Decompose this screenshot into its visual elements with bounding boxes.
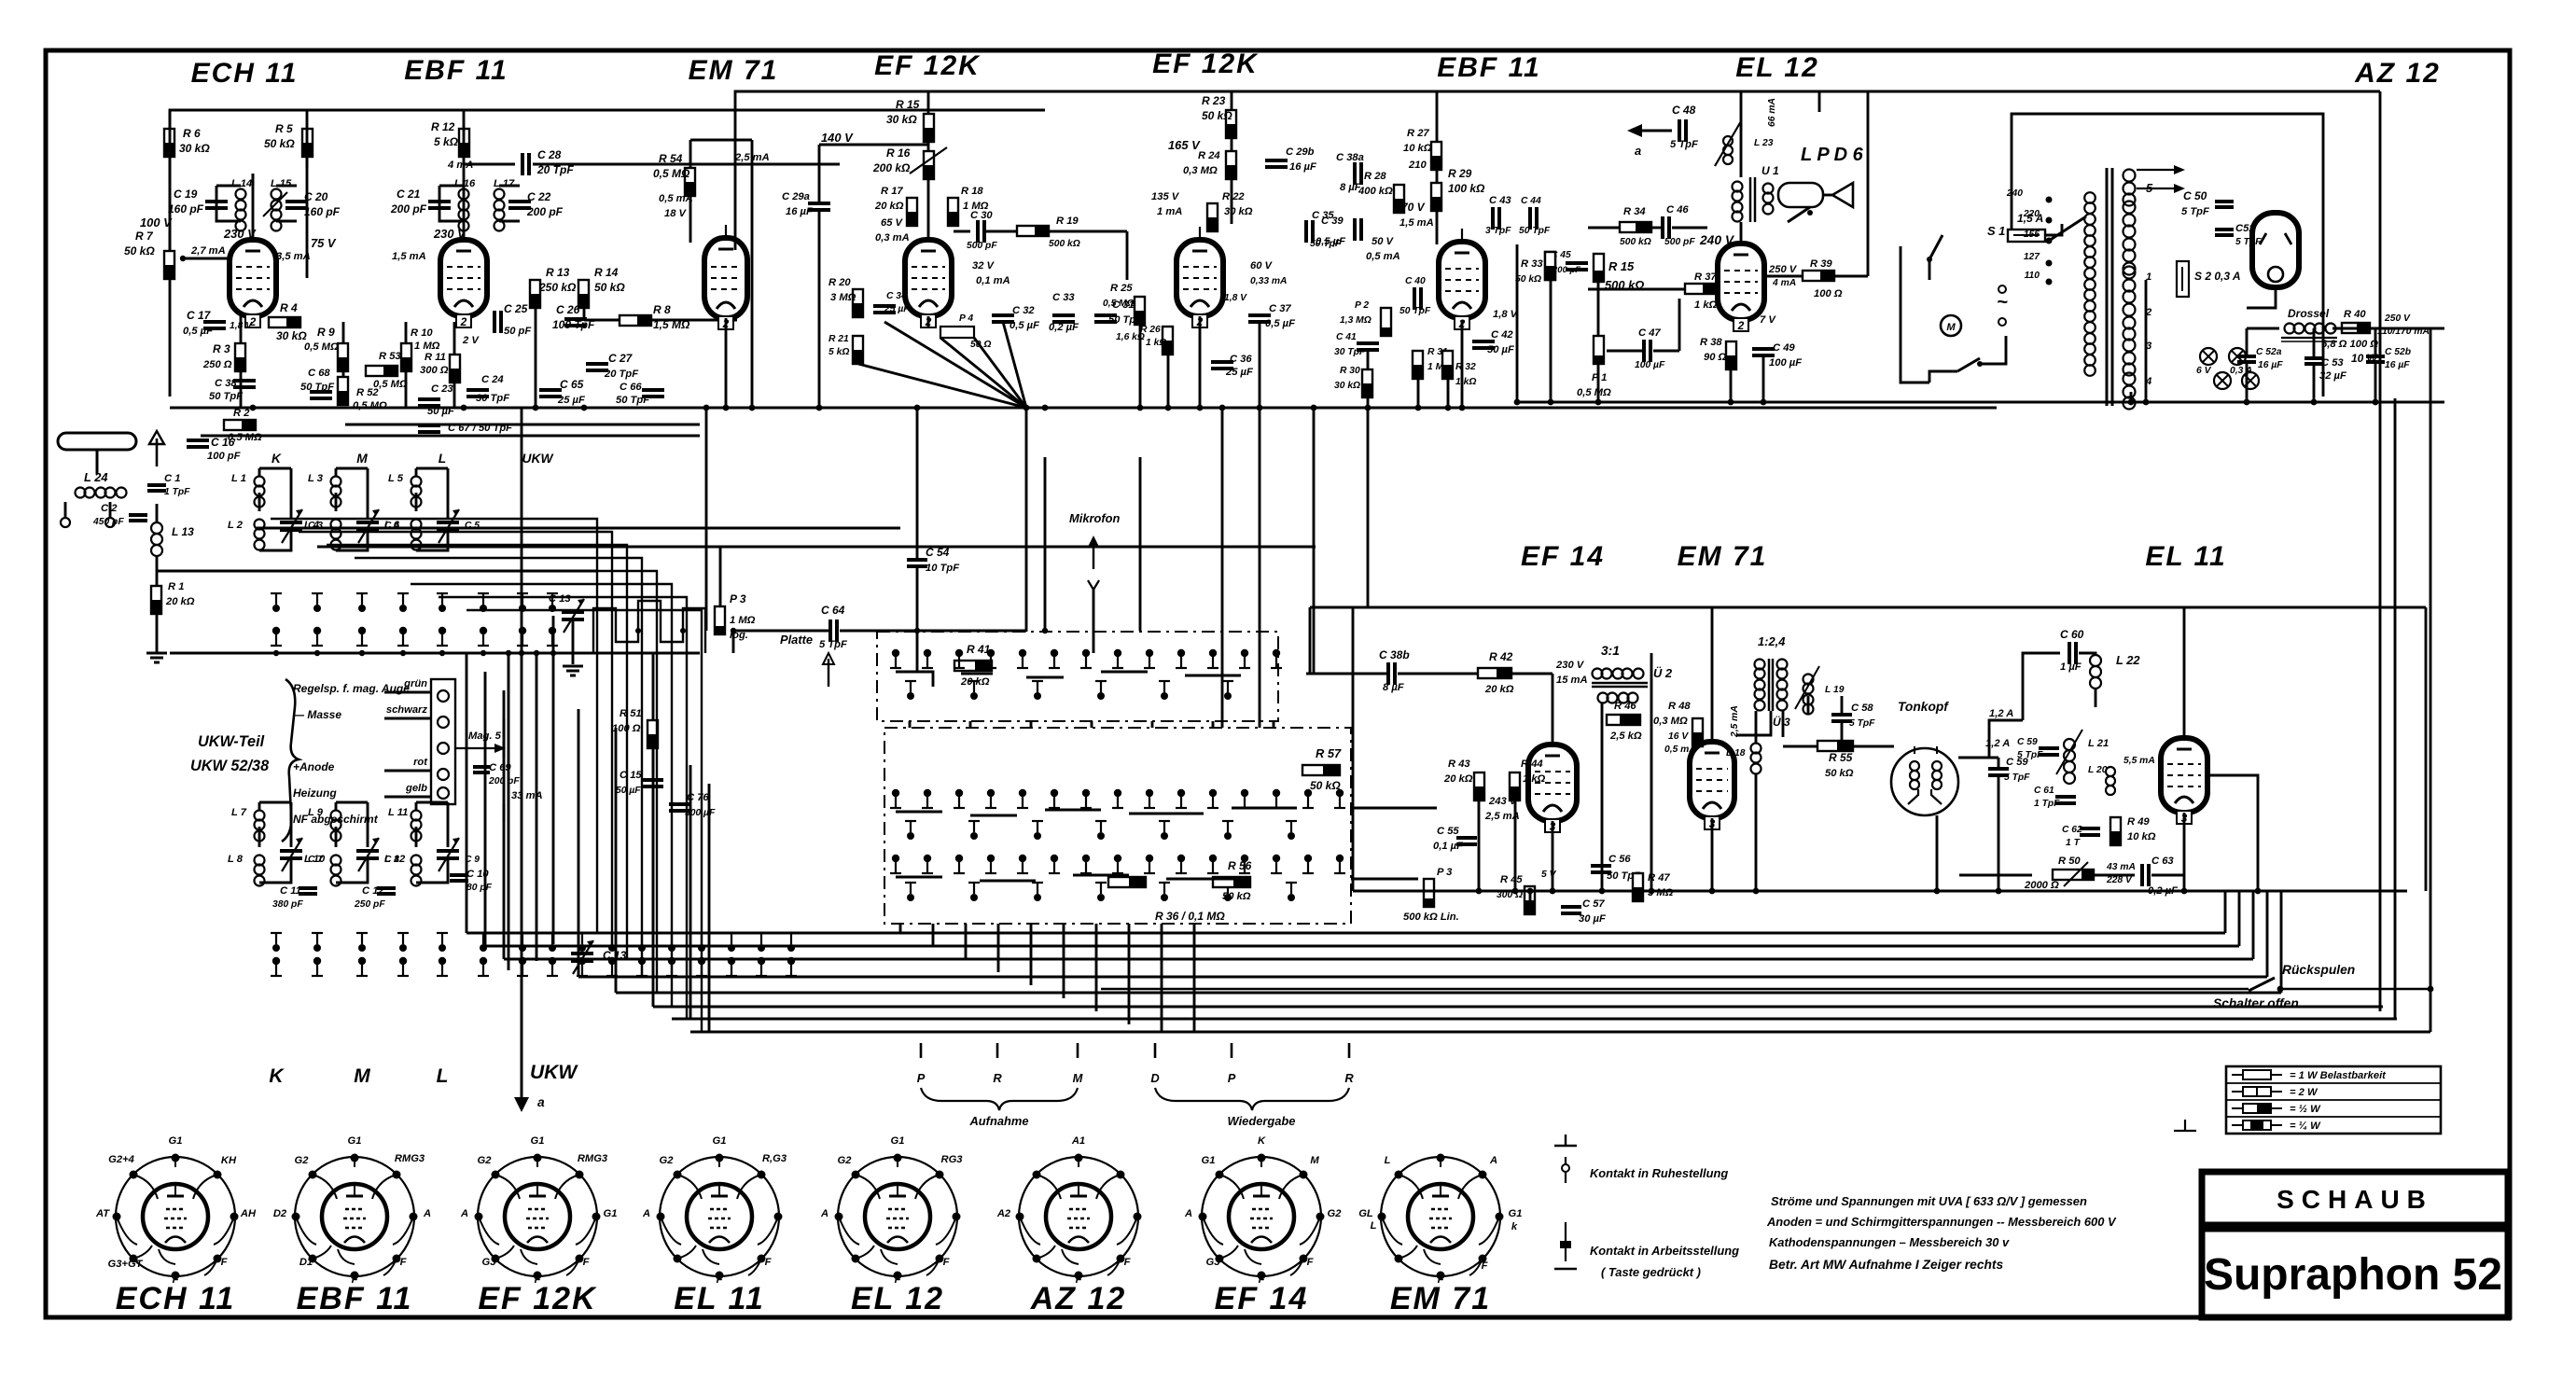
svg-text:C 60: C 60 (2060, 628, 2084, 641)
capacitor C37 (1248, 313, 1271, 317)
wires lower band 1 (259, 801, 291, 804)
wire power box (1901, 246, 1929, 383)
svg-text:R: R (993, 1071, 1002, 1085)
capacitor C22 (508, 200, 531, 203)
svg-text:AH: AH (240, 1208, 257, 1219)
svg-text:65 V: 65 V (881, 217, 904, 229)
resistor R1 (151, 586, 161, 614)
svg-text:R 52: R 52 (356, 387, 379, 398)
svg-text:L 12: L 12 (384, 854, 406, 865)
svg-text:C 16: C 16 (211, 436, 235, 449)
wires AZ12 (2247, 287, 2276, 308)
svg-text:1 TpF: 1 TpF (2034, 799, 2060, 809)
svg-text:M: M (1946, 322, 1956, 333)
capacitor C24 (466, 388, 489, 392)
resistor R40 (2342, 323, 2370, 333)
svg-text:D: D (1150, 1071, 1159, 1085)
svg-text:0,5 MΩ: 0,5 MΩ (653, 167, 690, 180)
svg-text:50 kΩ: 50 kΩ (1515, 274, 1541, 285)
svg-text:228 V: 228 V (2106, 875, 2133, 885)
svg-text:C 1: C 1 (164, 473, 180, 484)
svg-text:C 29b: C 29b (1286, 146, 1315, 158)
wire antenna down (156, 504, 159, 522)
svg-text:RG3: RG3 (940, 1154, 963, 1165)
capacitor C38b (1386, 662, 1390, 685)
bus EL12 bottom (1517, 401, 1997, 404)
svg-text:A: A (423, 1208, 431, 1219)
title block lower (2202, 1229, 2508, 1317)
svg-text:C 41: C 41 (1336, 332, 1357, 342)
svg-text:16 µF: 16 µF (1289, 161, 1317, 173)
wire Platte-P3 link (732, 631, 735, 653)
svg-text:C 25: C 25 (504, 302, 528, 315)
switch bank row 3 contacts (892, 855, 899, 862)
resistor R16 variable (924, 151, 934, 179)
svg-text:F: F (1482, 1260, 1489, 1272)
svg-text:1 kΩ: 1 kΩ (1694, 299, 1718, 311)
svg-text:KH: KH (221, 1155, 237, 1166)
svg-text:A: A (460, 1208, 468, 1219)
svg-text:R 38: R 38 (1700, 337, 1722, 348)
wire EM71 vert right (751, 140, 754, 408)
wire ground bus second line (201, 435, 700, 438)
wire EL11 anode (2183, 607, 2186, 738)
svg-text:R 8: R 8 (653, 303, 671, 316)
svg-text:C 23: C 23 (431, 383, 453, 395)
svg-text:ECH 11: ECH 11 (116, 1281, 236, 1316)
svg-text:L 2: L 2 (228, 520, 244, 531)
resistor R10 (401, 343, 411, 371)
capacitor C31 (1094, 313, 1117, 317)
svg-text:50 kΩ: 50 kΩ (1310, 779, 1341, 792)
svg-text:C 34: C 34 (886, 291, 907, 301)
wire L18 leads (1755, 711, 1758, 743)
svg-text:M: M (1310, 1155, 1319, 1166)
svg-text:0,5 µF: 0,5 µF (1316, 236, 1346, 247)
switch bank row 1b (910, 681, 912, 692)
capacitor C50 (2215, 200, 2234, 203)
svg-text:1,5 mA: 1,5 mA (392, 251, 426, 262)
svg-text:C 56: C 56 (1608, 854, 1631, 865)
capacitor C10 (450, 873, 468, 877)
svg-text:300 Ω: 300 Ω (420, 365, 449, 376)
svg-text:G3: G3 (482, 1257, 497, 1268)
svg-text:5 TpF: 5 TpF (1849, 718, 1875, 729)
svg-text:EL 11: EL 11 (674, 1281, 765, 1316)
capacitor C60 (2068, 642, 2071, 664)
svg-text:Kathodenspannungen – Messber: Kathodenspannungen – Messbereich 30 v (1769, 1235, 2010, 1249)
resistor R17 (907, 198, 917, 226)
capacitor C30 (976, 220, 980, 243)
trim cap upper band 1 (280, 521, 302, 524)
svg-text:R 2: R 2 (233, 408, 250, 419)
transformer core (2106, 168, 2109, 406)
L21 arrow (2056, 730, 2082, 774)
svg-text:C 58: C 58 (1851, 703, 1873, 714)
svg-text:250 Ω: 250 Ω (202, 359, 232, 370)
svg-text:50 TpF: 50 TpF (1519, 226, 1551, 236)
svg-text:R 21: R 21 (828, 334, 849, 344)
svg-text:C 64: C 64 (821, 604, 845, 617)
svg-text:U 1: U 1 (1761, 164, 1779, 177)
svg-text:Platte: Platte (780, 633, 813, 647)
svg-text:10 kΩ: 10 kΩ (2127, 831, 2156, 842)
svg-text:30 TpF: 30 TpF (476, 393, 510, 404)
resistor R8 (620, 315, 651, 326)
wire EM71 bottom (725, 318, 728, 408)
svg-text:K: K (272, 452, 282, 466)
svg-text:500 pF: 500 pF (967, 241, 997, 251)
svg-text:220: 220 (2023, 209, 2040, 219)
svg-text:C 39: C 39 (1321, 216, 1344, 227)
wires lower band 3 (416, 801, 448, 804)
resistor R24 (1226, 151, 1236, 179)
svg-text:140 V: 140 V (821, 131, 854, 145)
svg-text:20 kΩ: 20 kΩ (1443, 773, 1473, 785)
resistor R38 (1726, 341, 1736, 369)
wire choke line (2247, 327, 2279, 330)
svg-text:G1: G1 (531, 1135, 545, 1147)
svg-text:500 kΩ: 500 kΩ (1605, 278, 1644, 292)
resistor R15b 500k (1594, 254, 1604, 282)
motor M (1941, 315, 1961, 336)
svg-text:F: F (1307, 1257, 1315, 1268)
svg-text:A1: A1 (1071, 1135, 1085, 1147)
svg-text:60 V: 60 V (1250, 260, 1274, 271)
svg-text:165 V: 165 V (1168, 138, 1201, 152)
svg-text:10 kΩ: 10 kΩ (1403, 143, 1432, 154)
transformer U3 primary (1755, 660, 1765, 670)
svg-text:Kontakt in Arbeitsstellung: Kontakt in Arbeitsstellung (1590, 1244, 1739, 1258)
svg-text:R 1: R 1 (168, 581, 184, 592)
svg-text:32 V: 32 V (972, 260, 996, 271)
resistor R55 (1817, 741, 1853, 751)
wire EF14 anode (1552, 674, 1554, 745)
svg-text:C 22: C 22 (527, 190, 551, 203)
resistor R15 (924, 114, 934, 142)
svg-text:D2: D2 (273, 1208, 287, 1219)
svg-text:2000 Ω: 2000 Ω (2024, 880, 2059, 891)
svg-text:5 TpF: 5 TpF (2004, 773, 2030, 783)
capacitor C27 (586, 362, 608, 366)
svg-text:R 6: R 6 (183, 127, 201, 140)
svg-text:C 44: C 44 (1521, 196, 1541, 206)
transformer U3 secondary (1777, 660, 1788, 670)
svg-text:5,5 mA: 5,5 mA (2123, 756, 2155, 766)
svg-text:C 36: C 36 (1230, 354, 1252, 365)
svg-text:F: F (943, 1257, 951, 1268)
capacitor C40 (1413, 287, 1416, 310)
svg-text:450 pF: 450 pF (92, 517, 124, 527)
wire R34 line (1588, 227, 1620, 230)
svg-text:R 45: R 45 (1500, 874, 1523, 885)
switch bank row 1 contacts (892, 649, 899, 657)
wire L16 box (439, 186, 464, 221)
wire drop 1408 (1313, 408, 1316, 674)
wire connector drop (503, 718, 506, 758)
wires upper band 1 (259, 467, 291, 470)
tap dots (2046, 197, 2053, 203)
svg-text:33 mA: 33 mA (511, 790, 543, 801)
wire EF12K1 anode (927, 316, 930, 328)
wires upper band 2 (336, 467, 368, 470)
junction dots main buses (250, 405, 257, 411)
wires EL12 bottom (1730, 369, 1733, 402)
wire R23 chain (1231, 91, 1233, 110)
coil L17 (494, 189, 505, 200)
capacitor C38a (1353, 162, 1357, 185)
svg-text:6 V: 6 V (2196, 366, 2212, 376)
svg-text:R 57: R 57 (1316, 746, 1342, 760)
wire main ground bus upper section (170, 407, 1997, 410)
switch mains (1929, 235, 1942, 259)
svg-text:M: M (356, 452, 368, 466)
wire mid horizontals left (257, 527, 900, 530)
coil L21 (2064, 739, 2075, 750)
svg-text:5 TpF: 5 TpF (2235, 237, 2262, 247)
svg-text:15 mA: 15 mA (1556, 675, 1588, 686)
svg-text:L 19: L 19 (1825, 685, 1845, 695)
wire C60 left link (1989, 720, 2023, 758)
svg-text:EF 12K: EF 12K (478, 1281, 597, 1316)
svg-text:R 30: R 30 (1340, 366, 1360, 376)
wires EF12K2 bottom (1139, 325, 1142, 408)
transformer U2 core (1592, 682, 1648, 685)
svg-text:8 µF: 8 µF (1383, 682, 1405, 693)
wires EBF11-2 (1367, 350, 1370, 369)
svg-text:0,5 mA: 0,5 mA (1664, 745, 1696, 755)
svg-text:R 18: R 18 (961, 186, 983, 197)
svg-text:R 4: R 4 (280, 301, 298, 314)
capacitor C46 (1661, 216, 1664, 239)
tube EBF11 second (1439, 242, 1485, 318)
coil pair upper band 3 (411, 477, 422, 487)
svg-text:30 kΩ: 30 kΩ (1224, 206, 1253, 217)
svg-text:A: A (820, 1208, 828, 1219)
section top rail (1310, 606, 2426, 609)
svg-text:25 µF: 25 µF (884, 304, 910, 314)
wires upper band 3 (416, 467, 448, 470)
wire right top trunk (2116, 90, 2380, 93)
svg-text:50 V: 50 V (1372, 236, 1395, 247)
resistor R25 (1135, 297, 1145, 325)
svg-text:C 50: C 50 (2183, 189, 2207, 202)
capacitor C19 (205, 200, 228, 203)
svg-text:2 V: 2 V (462, 335, 480, 346)
coil pair lower band 2 (331, 811, 341, 821)
resistor R54 (685, 168, 695, 196)
tube EM71 top (704, 238, 747, 318)
svg-text:C 59: C 59 (2017, 737, 2038, 747)
wire rueckspulen line (1101, 988, 2249, 990)
resistor R49 (2110, 817, 2121, 845)
tuner switch contacts row1 (275, 593, 277, 605)
wire U3 bottom link (1737, 711, 1771, 735)
svg-text:A2: A2 (996, 1208, 1011, 1219)
coil L14 (236, 189, 246, 200)
svg-text:240: 240 (2006, 188, 2023, 199)
capacitor C66 (642, 388, 664, 392)
svg-text:250 V: 250 V (1768, 264, 1798, 275)
wire EL12 anode (1740, 227, 1743, 244)
svg-text:230 V: 230 V (223, 227, 257, 241)
svg-text:6,8 Ω 100 Ω: 6,8 Ω 100 Ω (2321, 339, 2378, 350)
svg-text:C 52b: C 52b (2385, 347, 2411, 357)
L23 arrow (1715, 121, 1741, 166)
svg-text:100 V: 100 V (140, 216, 173, 230)
capacitor C21 (428, 200, 451, 203)
resistor R50 pot (2053, 870, 2094, 880)
resistor R57 (1302, 765, 1340, 775)
resistor R22 (1207, 203, 1218, 231)
wire R37 (1588, 288, 1685, 291)
UKW brace (282, 679, 299, 842)
svg-text:4 mA: 4 mA (1772, 278, 1796, 288)
wire Tonkopf down (1936, 815, 1939, 891)
antenna symbol (58, 433, 136, 450)
wire mains switch (1929, 259, 1931, 280)
wire EL12 anode side (1764, 275, 1803, 278)
capacitor C58 (1831, 713, 1852, 717)
svg-text:~: ~ (1997, 292, 2008, 313)
svg-text:7 V: 7 V (1760, 314, 1776, 326)
capacitor C39 (1353, 218, 1357, 241)
transformer U1 secondary (1763, 184, 1774, 194)
tube AZ12 (2252, 213, 2299, 287)
svg-text:380 pF: 380 pF (272, 899, 303, 910)
svg-text:L 15: L 15 (271, 178, 292, 189)
resistor R56 (1213, 877, 1250, 887)
svg-text:G1: G1 (169, 1135, 183, 1147)
antenna arrow (156, 438, 159, 466)
capacitor C25 (493, 311, 496, 333)
svg-text:G1: G1 (604, 1208, 618, 1219)
svg-text:P 3: P 3 (1437, 867, 1453, 878)
resistor R3 (235, 343, 245, 371)
svg-text:R 37: R 37 (1694, 271, 1717, 283)
resistor R20 (853, 289, 863, 317)
svg-text:5 TpF: 5 TpF (819, 639, 848, 650)
svg-text:0,5 MΩ: 0,5 MΩ (353, 400, 387, 411)
svg-text:C 30: C 30 (970, 210, 993, 221)
speaker switch (1788, 207, 1810, 222)
resistor R33b (1545, 252, 1555, 280)
svg-text:5 TpF: 5 TpF (2181, 206, 2210, 217)
tube EL12 (1718, 244, 1764, 320)
resistor R47 (1633, 873, 1643, 901)
svg-text:50 kΩ: 50 kΩ (1825, 768, 1854, 779)
L19 arrow (1795, 666, 1819, 709)
switch bank dashed box 1 (877, 632, 1278, 721)
svg-text:100 µF: 100 µF (1635, 360, 1665, 370)
svg-text:C 43: C 43 (1489, 195, 1511, 206)
capacitor C51 (2215, 228, 2234, 231)
IF transformer L16 C21 (459, 189, 469, 200)
svg-text:A: A (642, 1208, 650, 1219)
wire C47 (1607, 350, 1644, 353)
tube EM71 second (1690, 742, 1734, 818)
svg-text:100 µF: 100 µF (1769, 357, 1803, 369)
wire R50 row (1959, 874, 2032, 877)
tuner switch contacts row2 (272, 627, 280, 634)
svg-text:R 25: R 25 (1110, 283, 1133, 294)
resistor R32 (1442, 351, 1453, 379)
svg-text:1,8 V: 1,8 V (1224, 293, 1247, 303)
coil L15 (272, 189, 282, 200)
svg-text:25 µF: 25 µF (557, 395, 586, 406)
capacitor C36 (1211, 360, 1233, 364)
coil L13 (151, 522, 162, 534)
svg-text:R 28: R 28 (1364, 171, 1386, 182)
capacitor C41 (1357, 341, 1379, 345)
capacitor C68 (310, 390, 332, 394)
resistor R18 (948, 198, 958, 226)
svg-text:L 21: L 21 (2088, 738, 2109, 749)
svg-text:1,8 V: 1,8 V (1493, 309, 1519, 320)
wire ground bus third (345, 424, 700, 426)
svg-text:C 33: C 33 (1052, 292, 1075, 303)
svg-text:G3: G3 (1206, 1257, 1221, 1268)
capacitor C61 (2055, 795, 2076, 799)
coil L18 (1751, 744, 1761, 754)
wire EL11 screen right (2207, 775, 2258, 891)
svg-text:F: F (221, 1257, 229, 1268)
long bus lines lower (466, 932, 2225, 935)
capacitor C2 (129, 513, 147, 517)
svg-text:30 kΩ: 30 kΩ (1334, 381, 1360, 391)
resistor R44 (1510, 773, 1520, 800)
svg-text:2,5 kΩ: 2,5 kΩ (1609, 731, 1642, 742)
EL11 section bottom bus (1353, 890, 2407, 893)
AZ12 plates (2260, 233, 2266, 244)
capacitor C29a (808, 202, 830, 205)
transformer winding 1 (2123, 267, 2136, 279)
resistor R53 (366, 366, 397, 376)
capacitor C1 (147, 483, 166, 487)
svg-text:2: 2 (460, 315, 467, 328)
tube socket AZ 12 (1019, 1157, 1138, 1276)
svg-text:3 TpF: 3 TpF (1485, 226, 1511, 236)
svg-text:L 10: L 10 (304, 854, 326, 865)
svg-text:C 20: C 20 (304, 190, 328, 203)
wire top B+ bus mid (735, 91, 2116, 250)
svg-text:C 12: C 12 (362, 885, 384, 897)
svg-text:G2: G2 (1328, 1208, 1343, 1219)
svg-text:C 2: C 2 (101, 503, 118, 514)
resistor R4 (269, 317, 300, 327)
power bottom bus (1997, 401, 2444, 404)
svg-text:R 44: R 44 (1521, 759, 1543, 770)
svg-text:135 V: 135 V (1151, 191, 1180, 202)
svg-text:EF 12K: EF 12K (1152, 49, 1259, 79)
capacitor C35 (1304, 220, 1308, 243)
svg-text:schwarz: schwarz (386, 704, 428, 716)
pot P2 region (1381, 308, 1391, 336)
wire C13 upper ground (572, 621, 575, 653)
svg-text:R 22: R 22 (1222, 191, 1245, 202)
svg-text:EBF 11: EBF 11 (297, 1281, 413, 1316)
svg-text:L P D 6: L P D 6 (1801, 145, 1864, 165)
wire U2 secondary down (1601, 703, 1604, 891)
svg-text:F: F (1124, 1257, 1132, 1268)
svg-text:R 41: R 41 (967, 643, 991, 656)
resistor R46 (1607, 715, 1640, 725)
svg-text:R 56: R 56 (1228, 859, 1252, 872)
svg-text:1 MΩ: 1 MΩ (730, 615, 756, 626)
svg-text:250 V: 250 V (2384, 313, 2411, 324)
svg-text:L 5: L 5 (388, 473, 404, 484)
svg-text:1:2,4: 1:2,4 (1758, 634, 1785, 648)
